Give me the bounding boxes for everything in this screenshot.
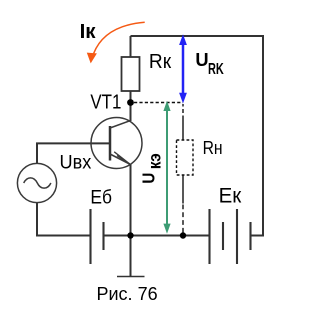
svg-text:VT1: VT1	[90, 92, 121, 114]
svg-text:Ек: Ек	[219, 184, 242, 208]
svg-text:U: U	[138, 173, 159, 184]
svg-text:Еб: Еб	[90, 187, 112, 208]
svg-text:U: U	[195, 49, 208, 70]
svg-text:кэ: кэ	[146, 153, 165, 169]
svg-text:Iк: Iк	[80, 21, 97, 43]
svg-text:Rн: Rн	[203, 137, 223, 158]
svg-text:Рис. 76: Рис. 76	[97, 284, 158, 304]
svg-text:Rк: Rк	[149, 51, 171, 73]
svg-text:RK: RK	[208, 61, 224, 78]
svg-text:Uвх: Uвх	[60, 153, 92, 174]
